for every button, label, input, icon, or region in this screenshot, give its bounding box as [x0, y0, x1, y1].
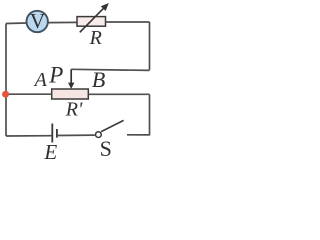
battery E	[52, 124, 57, 143]
wiper P arrow	[68, 69, 74, 89]
svg-text:E: E	[43, 140, 57, 163]
svg-text:V: V	[30, 9, 45, 33]
wire left vertical	[5, 24, 7, 137]
svg-text:B: B	[92, 67, 105, 92]
svg-text:A: A	[33, 69, 48, 91]
svg-text:R': R'	[65, 98, 83, 120]
svg-text:R: R	[89, 27, 102, 49]
svg-text:S: S	[100, 136, 112, 161]
wire rheostat to right (node B side)	[88, 93, 149, 95]
resistor R (variable)	[77, 17, 106, 27]
wire bottom-left corner to battery	[6, 135, 52, 137]
wire junction to rheostat (node A side)	[6, 93, 52, 95]
wire battery to switch	[57, 134, 95, 136]
svg-text:P: P	[48, 63, 63, 88]
wire right vertical (bottom loop)	[149, 94, 151, 135]
rheostat R'	[52, 89, 89, 99]
wire resistor R to top-right corner	[106, 21, 150, 23]
switch S	[96, 120, 150, 137]
voltmeter U1	[27, 9, 48, 33]
wire top (left corner to voltmeter)	[6, 22, 27, 25]
junction dot	[2, 91, 9, 98]
wire wiper horizontal	[71, 69, 149, 70]
wire voltmeter to resistor R	[49, 21, 78, 23]
arrow of variable resistor R	[80, 3, 109, 32]
wire right vertical (top loop)	[149, 22, 151, 70]
